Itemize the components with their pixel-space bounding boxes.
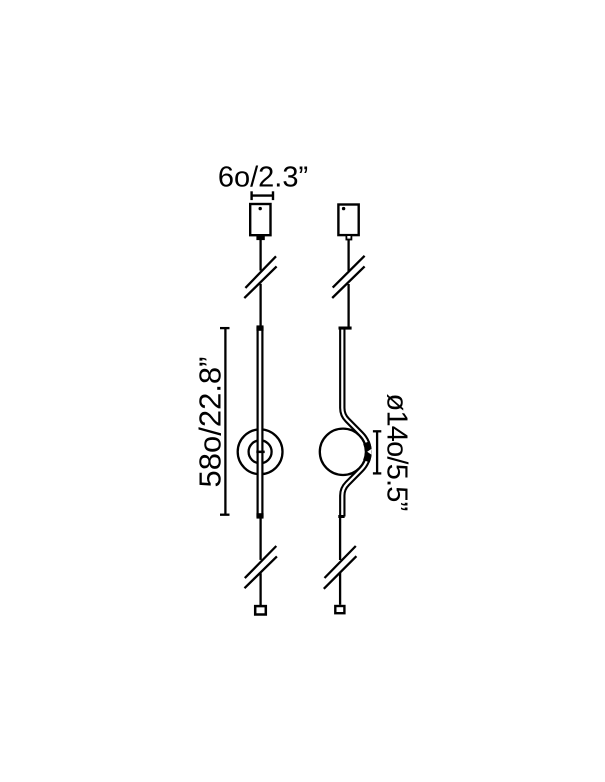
dimension label 60/2.3": [218, 161, 308, 193]
rod side view profile: [342, 329, 368, 517]
svg-text:6o/2.3”: 6o/2.3”: [218, 161, 308, 193]
break lines left lower: [245, 546, 277, 588]
sphere front view outer circle: [238, 429, 283, 474]
rod front view: [258, 327, 263, 518]
rod side view top cap: [339, 327, 352, 330]
wire left middle: [259, 284, 261, 328]
center mark dash: [256, 451, 264, 454]
rod front view top cap: [256, 327, 263, 331]
break lines left upper: [244, 256, 276, 298]
wire right lower: [339, 518, 341, 560]
break lines right lower: [324, 546, 357, 589]
dimension line diameter 140: [373, 431, 381, 473]
wire right middle: [347, 284, 349, 328]
canopy right cable nub: [346, 235, 351, 239]
rod side view bottom cap: [338, 515, 344, 518]
sphere front view inner circle: [249, 440, 272, 463]
wire right upper: [347, 240, 349, 272]
canopy left cable nub: [256, 235, 264, 240]
canopy left (front view): [250, 204, 270, 235]
rod front view bottom cap: [256, 513, 263, 517]
counterweight left: [255, 606, 266, 614]
sphere side view circle: [320, 429, 366, 475]
wire left lower: [259, 518, 261, 560]
wire left bottom: [259, 573, 261, 605]
wire right bottom: [339, 573, 341, 605]
dimension line width 60: [252, 191, 273, 200]
canopy right (side view): [338, 205, 358, 236]
highlight notch: [367, 449, 371, 455]
canopy left screw dot: [259, 207, 262, 210]
dimension line height 580: [220, 328, 230, 515]
canopy right screw dot: [342, 207, 345, 210]
svg-text:ø14o/5.5”: ø14o/5.5”: [380, 394, 412, 511]
counterweight right: [335, 606, 344, 613]
contact shadow between rod and sphere: [363, 441, 372, 462]
svg-text:58o/22.8”: 58o/22.8”: [192, 357, 227, 488]
wire left upper: [259, 240, 261, 271]
break lines right upper: [332, 256, 364, 298]
